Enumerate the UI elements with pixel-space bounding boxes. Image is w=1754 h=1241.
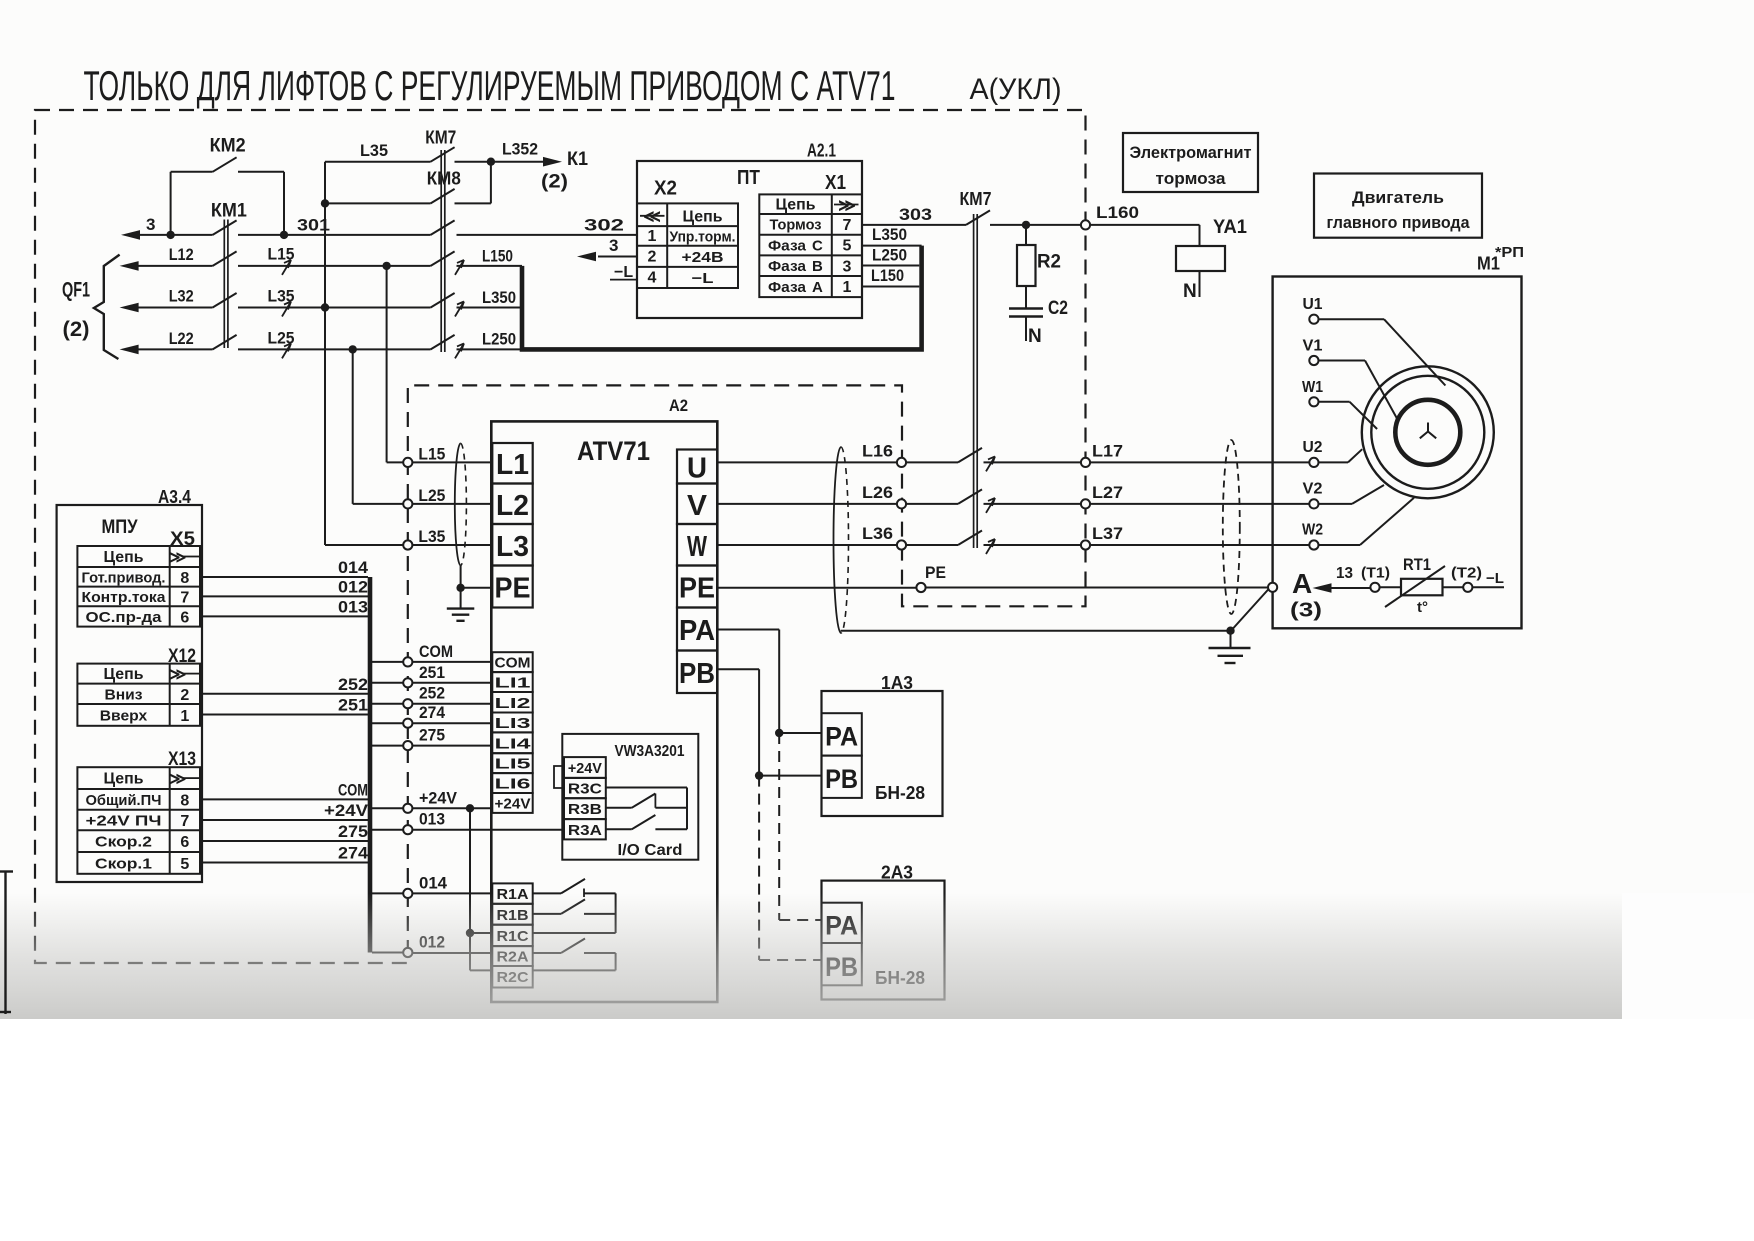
svg-text:012: 012 (338, 577, 368, 596)
connector X2 header Цепь (683, 209, 723, 226)
label K1 (567, 149, 588, 170)
connector X1 header arrow ≫ (834, 196, 859, 215)
wire L27 to motor (1090, 503, 1309, 505)
svg-text:LI5: LI5 (495, 756, 531, 773)
wire L35 top run to KM7 (325, 161, 431, 163)
svg-text:L150: L150 (871, 267, 904, 285)
svg-text:БН-28: БН-28 (875, 783, 925, 803)
zig mark on L15 after KM1 (282, 260, 291, 275)
svg-text:X2: X2 (654, 178, 677, 200)
junction node PA (775, 729, 783, 737)
svg-text:W: W (687, 531, 707, 563)
wire L352 with arrow to K1 (491, 157, 562, 167)
callout box Двигатель главного привода (1314, 174, 1482, 238)
svg-text:L2: L2 (496, 490, 529, 522)
wire input shield to PE (461, 565, 493, 587)
labels COM 251 252 274 275 +24V 013 014 012 (419, 643, 457, 952)
svg-text:3: 3 (146, 215, 155, 234)
wire L35 segment (238, 307, 431, 309)
svg-text:5: 5 (180, 856, 189, 873)
label A2 (669, 396, 688, 415)
svg-text:L160: L160 (1096, 203, 1139, 222)
wire X1 pin3 stub (862, 265, 919, 267)
svg-text:R3C: R3C (568, 781, 602, 798)
svg-text:V1: V1 (1303, 338, 1323, 355)
motor terminal U2 (1303, 439, 1323, 467)
drive logic terminals COM LI1-LI6 +24V (492, 652, 532, 813)
wire L15 into L1 (412, 446, 492, 464)
+24V rail down to relay commons (470, 808, 492, 970)
svg-text:U1: U1 (1303, 296, 1323, 313)
svg-text:VW3A3201: VW3A3201 (615, 743, 685, 760)
terminal circles on A2 boundary (403, 657, 412, 957)
motor terminal W1 (1302, 379, 1323, 406)
svg-text:251: 251 (338, 696, 368, 715)
label ПТ (737, 167, 760, 189)
wire L16 from drive (717, 461, 897, 463)
label 3 at X2 (609, 236, 618, 255)
svg-text:А: А (1292, 568, 1312, 599)
svg-text:LI4: LI4 (495, 735, 532, 752)
terminal L17 (1081, 458, 1090, 467)
label 3 (146, 215, 155, 234)
motor terminal W2 (1302, 522, 1323, 550)
svg-text:Цепь: Цепь (683, 209, 723, 226)
wire L350 into harness (457, 307, 523, 309)
svg-text:(Т1): (Т1) (1361, 565, 1390, 582)
wire 303 to L160 (990, 224, 1081, 226)
label А node (1292, 568, 1312, 599)
svg-text:13: 13 (1336, 565, 1353, 582)
svg-text:+24V: +24V (419, 789, 457, 807)
contactor KM1 contact on wire L12-L15 (213, 251, 237, 266)
svg-text:А2.1: А2.1 (807, 141, 836, 161)
drive input terminals L1 L2 L3 PE (492, 443, 532, 608)
svg-text:L26: L26 (862, 484, 893, 502)
label KM7 power (960, 189, 992, 209)
svg-text:≫: ≫ (170, 771, 187, 788)
junction node L352 (487, 158, 495, 166)
KM1 mechanical linkage (224, 220, 228, 349)
svg-text:LI6: LI6 (495, 776, 531, 793)
motor terminal V1 (1303, 338, 1323, 366)
svg-text:А(УКЛ): А(УКЛ) (970, 73, 1062, 106)
contactor KM1 contact on wire L22-L25 (213, 335, 237, 350)
svg-text:КМ7: КМ7 (425, 128, 456, 148)
wires МПУ to harness (200, 577, 368, 863)
svg-text:275: 275 (338, 822, 368, 841)
labels L150/L350/L250 at harness (482, 248, 516, 349)
relay R3A contact (606, 815, 687, 829)
junction node shield/PE (456, 584, 464, 592)
resistor R2 (1017, 225, 1061, 286)
terminal L26 (897, 499, 906, 508)
wire T1-RT1 (1380, 586, 1401, 588)
label X1 (825, 172, 846, 194)
relay R3 common wire (606, 788, 687, 830)
title text: ТОЛЬКО ДЛЯ ЛИФТОВ С РЕГУЛИРУЕМЫМ ПРИВОДОМ С ATV71 (84, 62, 896, 109)
control harness bus (368, 577, 373, 953)
label МПУ (102, 517, 138, 538)
label (3) sheet ref (1290, 600, 1322, 622)
svg-text:R3A: R3A (568, 822, 602, 839)
svg-text:4: 4 (648, 270, 657, 287)
wire L250 into harness (457, 348, 523, 350)
input cable shield ellipse (455, 443, 467, 565)
terminal circle L25 (403, 499, 412, 508)
wire L15 segment (238, 265, 431, 267)
svg-text:Гот.привод.: Гот.привод. (82, 569, 166, 586)
wire L15 drop to drive input L1 (387, 266, 404, 463)
zig mark on L250 row (455, 343, 464, 358)
terminal (T1) (1361, 565, 1390, 592)
brake coil YA1 (1176, 246, 1225, 271)
wire YA1 to N (1199, 271, 1201, 297)
1А3 terminal PA (822, 713, 862, 755)
svg-text:8: 8 (180, 570, 189, 587)
label L15 (268, 246, 295, 264)
svg-text:I/O Card: I/O Card (618, 842, 683, 859)
svg-text:275: 275 (419, 727, 445, 745)
svg-text:7: 7 (180, 589, 189, 606)
label 302 (584, 216, 624, 235)
junction node on 301 right (280, 231, 288, 239)
svg-text:L17: L17 (1092, 442, 1123, 460)
wire L16 to KM7 (906, 461, 958, 463)
connector X2 pin 4 -L (648, 270, 714, 288)
wire L17 to motor (1090, 461, 1309, 463)
label L27 (1092, 484, 1123, 502)
svg-text:PA: PA (679, 615, 715, 647)
circuit breaker QF1 brace (94, 255, 120, 359)
contactor KM7 control contact (431, 147, 455, 162)
svg-text:014: 014 (419, 874, 448, 892)
svg-text:Скор.1: Скор.1 (95, 855, 152, 872)
wire COM into drive (412, 661, 492, 663)
svg-text:Двигатель: Двигатель (1352, 188, 1444, 207)
label L17 (1092, 442, 1123, 460)
partial block at left edge (0, 871, 13, 1014)
svg-text:L1: L1 (496, 449, 529, 481)
controller МПУ box (57, 505, 202, 882)
svg-text:(2): (2) (63, 318, 90, 341)
label L16 (862, 442, 893, 460)
svg-text:(3): (3) (1290, 600, 1322, 622)
svg-text:Тормоз: Тормоз (770, 217, 822, 234)
svg-text:L352: L352 (502, 140, 538, 159)
svg-text:ATV71: ATV71 (577, 436, 650, 466)
callout box Электромагнит тормоза (1123, 133, 1258, 192)
junction node PB (755, 771, 763, 779)
svg-text:PE: PE (925, 563, 946, 582)
wire 251 into LI1 (412, 682, 492, 684)
ground bus wire (841, 630, 1231, 632)
terminal (T2) (1451, 565, 1482, 592)
motor lead W2 (1319, 498, 1415, 545)
label A2.1 (807, 141, 836, 161)
contactor KM2 contact (213, 157, 237, 172)
label VW3A3201 (615, 743, 685, 760)
svg-text:R2: R2 (1037, 252, 1061, 273)
connector X1 header Цепь (776, 197, 816, 214)
label L160 (1096, 203, 1139, 222)
zig mark on L150 row (455, 260, 464, 275)
svg-text:С: С (812, 238, 823, 255)
svg-text:+24В: +24В (682, 249, 724, 266)
label L35 (268, 288, 295, 306)
labels on МПУ harness wires (324, 558, 369, 863)
connector X1 pin 5 Фаза С (768, 238, 852, 255)
connector X1 pin 3 Фаза В (768, 258, 852, 276)
svg-text:3: 3 (609, 236, 618, 255)
wire 302 segment KM8..X2 (457, 234, 638, 236)
svg-text:L25: L25 (418, 487, 445, 505)
thick harness cable run to PT connector X1 (522, 246, 922, 350)
wire L17 segment (984, 461, 1081, 463)
2А3 terminal PA (822, 903, 862, 943)
output cable shield ellipse (834, 447, 849, 633)
contactor KM8 contact on L150 row (431, 251, 455, 266)
svg-text:L350: L350 (482, 289, 516, 307)
svg-text:L350: L350 (872, 226, 907, 244)
wire L27 segment (984, 503, 1081, 505)
relay R3B contact (606, 794, 687, 808)
connector X1 pin 7 Тормоз (770, 217, 852, 235)
KM7/KM8 mechanical linkage (441, 150, 445, 352)
ground symbol at drive input (447, 588, 475, 621)
net -L stub at X2 pin4 (610, 264, 637, 281)
motor unit M1 box (1273, 277, 1522, 629)
wire KM7 to K1 node (455, 161, 491, 163)
svg-text:L12: L12 (169, 246, 194, 264)
svg-text:PB: PB (825, 764, 858, 794)
svg-text:7: 7 (843, 217, 852, 234)
svg-text:Общий.ПЧ: Общий.ПЧ (86, 792, 162, 809)
svg-text:RT1: RT1 (1403, 555, 1431, 574)
svg-text:PA: PA (825, 722, 858, 752)
svg-text:1: 1 (843, 279, 852, 296)
label ATV71 (577, 436, 650, 466)
svg-text:−L: −L (692, 270, 714, 287)
label L12 (169, 246, 194, 264)
svg-text:2: 2 (648, 249, 657, 266)
zig mark on L35 after KM1 (282, 302, 291, 317)
contactor KM7 power contact L26-L27 (958, 489, 982, 504)
connector X2 table grid (637, 203, 738, 288)
wire 303 from X1 pin7 (862, 224, 966, 226)
svg-text:+24V: +24V (324, 801, 369, 820)
label 2А3 (881, 863, 913, 883)
contactor KM8 contact on L350 row (431, 293, 455, 308)
label L32 (169, 288, 194, 306)
svg-text:2А3: 2А3 (881, 863, 913, 883)
zig mark on L350 row (455, 302, 464, 317)
brake rectifier unit A2.1 box (637, 161, 862, 318)
terminal L16 (897, 458, 906, 467)
svg-text:L32: L32 (169, 288, 194, 306)
svg-text:Упр.торм.: Упр.торм. (670, 229, 736, 246)
svg-text:V2: V2 (1303, 481, 1323, 498)
svg-text:R3B: R3B (568, 801, 602, 818)
svg-text:U: U (687, 453, 707, 485)
svg-text:252: 252 (338, 675, 368, 694)
arrow to QF1 line L32 (120, 303, 213, 313)
svg-text:COM: COM (495, 655, 531, 672)
I/O card terminals +24V R3C R3B R3A (564, 757, 606, 839)
dashed wire PA to 2A3 (779, 733, 821, 920)
zig mark L37 (986, 539, 995, 554)
drive output terminals U V W PE PA PB (677, 450, 717, 694)
svg-text:W2: W2 (1302, 522, 1323, 539)
svg-text:013: 013 (338, 597, 368, 616)
contactor KM8 contact (431, 189, 455, 204)
svg-text:L16: L16 (862, 442, 893, 460)
svg-text:КМ2: КМ2 (210, 136, 246, 157)
terminal L36 (897, 540, 906, 549)
label KM8 (427, 169, 461, 189)
contactor KM7 contact on 303 (966, 210, 990, 225)
svg-text:L250: L250 (482, 331, 516, 349)
svg-text:1: 1 (180, 708, 189, 725)
wire X1 pin1 stub (862, 286, 919, 288)
svg-text:014: 014 (338, 558, 369, 577)
svg-text:Цепь: Цепь (104, 771, 144, 788)
svg-text:L150: L150 (482, 248, 513, 266)
wire L35 into L3 (412, 528, 492, 546)
svg-text:(2): (2) (541, 172, 568, 193)
arrow to QF1 line L22 (120, 345, 213, 355)
motor lead U1 (1319, 319, 1446, 385)
wire L26 from drive (717, 503, 897, 505)
label L35 top (360, 141, 388, 160)
svg-text:МПУ: МПУ (102, 517, 138, 538)
svg-text:V: V (687, 490, 708, 522)
svg-text:N: N (1183, 281, 1197, 302)
svg-text:КМ8: КМ8 (427, 169, 461, 189)
contactor KM1 contact on wire L32-L35 (213, 293, 237, 308)
junction node R2 tap (1022, 221, 1030, 229)
junction node rail/R1C (466, 929, 474, 937)
label L36 (862, 525, 893, 543)
label (2) sheet ref under QF1 (63, 318, 90, 341)
svg-text:Цепь: Цепь (776, 197, 816, 214)
svg-text:ПТ: ПТ (737, 167, 760, 189)
dashed wire PB to 2A3 (759, 776, 821, 960)
drive A2 ATV71 box (491, 421, 717, 1002)
motor lead U2 (1319, 449, 1363, 462)
contactor KM7 power contact L16-L17 (958, 448, 982, 463)
svg-text:L35: L35 (418, 528, 445, 546)
1А3 terminal PB (822, 756, 862, 798)
cabinet А(УКЛ) dashed boundary (outer + A2 step) (35, 110, 1086, 963)
svg-text:Фаза: Фаза (768, 238, 807, 255)
connector X2 pin 2 +24В (648, 249, 724, 267)
svg-text:303: 303 (899, 205, 932, 224)
connector X1 table grid (759, 194, 862, 297)
wire 275 into LI4 (412, 745, 492, 747)
wire 014 into R1A (412, 892, 492, 894)
svg-text:L22: L22 (169, 330, 194, 348)
wire PA to 1A3 (717, 630, 821, 734)
wire RT1-T2 (1443, 586, 1464, 588)
labels L350/L250/L150 at X1 (871, 226, 907, 285)
label N below C2 (1028, 326, 1042, 347)
wire PB to 1A3 (717, 669, 821, 775)
svg-text:К1: К1 (567, 149, 588, 170)
connector X13 table (77, 767, 200, 874)
contactor KM8 contact on wire 301-302 (431, 220, 455, 235)
arrow 3 from X2 pin2 (577, 252, 637, 262)
svg-text:*РП: *РП (1495, 244, 1524, 261)
svg-text:тормоза: тормоза (1156, 169, 1227, 188)
svg-text:Вверх: Вверх (100, 707, 148, 724)
wire L35 drop to drive input L3 (325, 162, 403, 545)
label YA1 (1213, 217, 1247, 238)
label L352 (502, 140, 538, 159)
label X2 (654, 178, 677, 200)
svg-text:L36: L36 (862, 525, 893, 543)
wire L37 to motor (1090, 544, 1309, 546)
label *РП (1495, 244, 1524, 261)
arrow to QF1 line L12 (120, 261, 213, 271)
connector X2 pin 1 Упр.торм. (648, 228, 736, 246)
svg-text:302: 302 (584, 216, 624, 235)
junction node L25 (349, 345, 357, 353)
svg-text:Фаза: Фаза (768, 279, 807, 296)
svg-text:Цепь: Цепь (104, 666, 144, 683)
wire 252 into LI2 (412, 703, 492, 705)
I/O card +24V to R3C link (554, 766, 564, 788)
wire PE from drive (717, 587, 916, 589)
svg-text:LI2: LI2 (495, 695, 531, 712)
label QF1 (62, 279, 90, 302)
label I/O Card (618, 842, 683, 859)
ground symbol at motor (1209, 631, 1251, 663)
terminal circle L15 (403, 458, 412, 467)
svg-text:Скор.2: Скор.2 (95, 834, 152, 851)
label N below YA1 (1183, 281, 1197, 302)
motor terminal U1 (1303, 296, 1323, 324)
motor lead V1 (1319, 361, 1399, 422)
connector X5 table (77, 546, 200, 627)
svg-text:Фаза: Фаза (768, 258, 807, 275)
wire PE to node A (926, 587, 1268, 589)
svg-text:−L: −L (1486, 570, 1504, 587)
svg-text:КМ1: КМ1 (211, 201, 247, 222)
label KM2 (210, 136, 246, 157)
svg-text:А: А (812, 279, 823, 296)
svg-text:L250: L250 (872, 247, 907, 265)
terminal L37 (1081, 540, 1090, 549)
KM7 power mechanical linkage (974, 214, 978, 548)
label А3.4 (158, 487, 191, 507)
terminal PE (916, 563, 946, 592)
zig mark on L25 after KM1 (282, 343, 291, 358)
svg-text:COM: COM (338, 780, 368, 799)
svg-text:L35: L35 (360, 141, 388, 160)
connector X12 table (77, 664, 200, 726)
motor lead V2 (1319, 485, 1385, 504)
wire L25 into L2 (412, 487, 492, 505)
wire T2 to -L (1472, 570, 1504, 587)
svg-text:274: 274 (338, 844, 369, 863)
wire 012 into R2A (412, 952, 492, 954)
svg-text:Цепь: Цепь (104, 549, 144, 566)
junction node ground (1226, 627, 1234, 635)
svg-text:5: 5 (843, 238, 852, 255)
svg-text:≫: ≫ (170, 667, 187, 684)
zig mark L17 (986, 456, 995, 471)
